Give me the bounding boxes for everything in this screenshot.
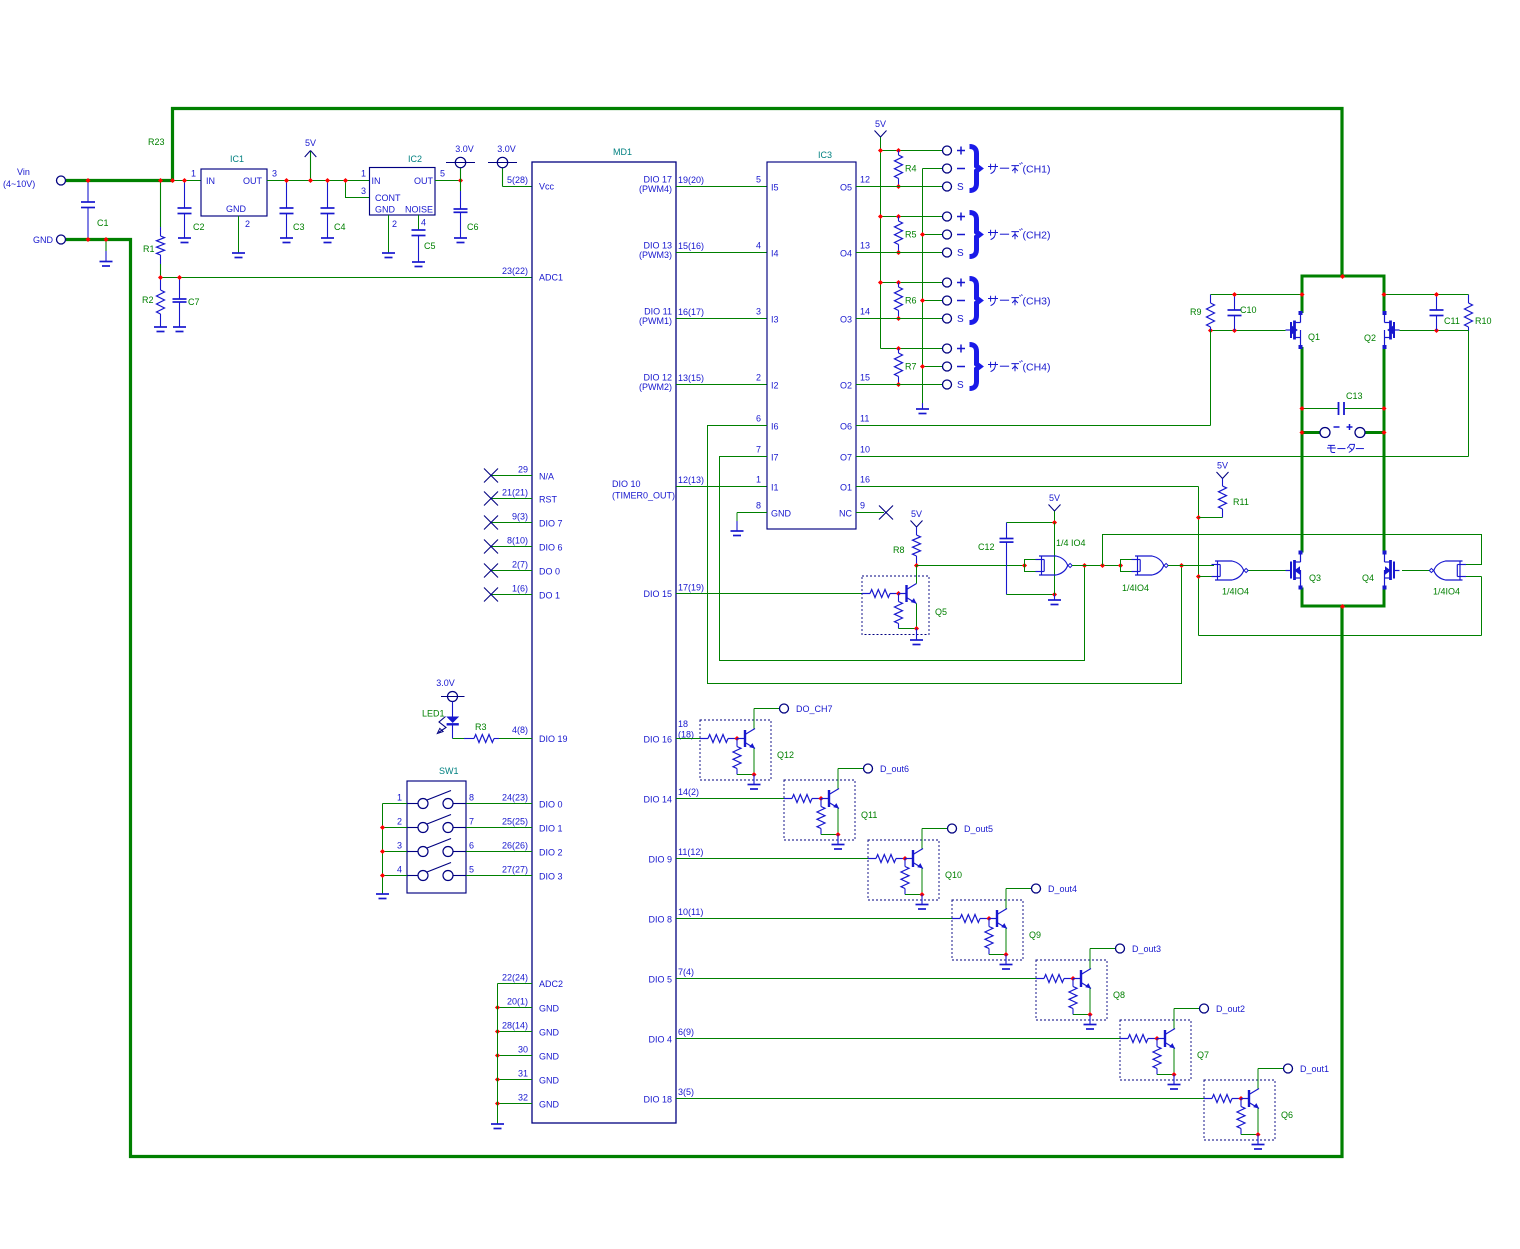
gate 1/4 IC4 second (inverter) bbox=[1118, 563, 1123, 568]
svg-text:(CH2): (CH2) bbox=[1023, 230, 1051, 242]
power 5V at R11 bbox=[1217, 472, 1223, 479]
svg-text:RST: RST bbox=[539, 495, 558, 505]
resistor R8 bbox=[916, 527, 918, 535]
wire gate2 output to gate3 bbox=[1168, 565, 1214, 567]
wire Q10 collector to D_out5 bbox=[922, 828, 948, 830]
label servo CH3 bbox=[988, 296, 998, 306]
wire GND thick net: GND terminal along left and bottom border up to H-bridge bbox=[66, 240, 1342, 1157]
ground Q5 emitter bbox=[916, 629, 918, 641]
svg-text:26(26): 26(26) bbox=[502, 841, 528, 851]
ground Q11 emitter bbox=[837, 835, 839, 845]
svg-text:12: 12 bbox=[860, 175, 870, 185]
svg-text:C12: C12 bbox=[978, 542, 995, 552]
wire servo CH1 plus bbox=[881, 150, 943, 152]
svg-text:DO 0: DO 0 bbox=[539, 567, 560, 577]
wire servo CH2 minus bbox=[923, 234, 943, 236]
transistor Q3 N-MOSFET bbox=[1300, 553, 1302, 563]
power 5V rail symbol at IC1 output bbox=[310, 151, 312, 181]
svg-text:2: 2 bbox=[397, 817, 402, 827]
capacitor C12 bbox=[1006, 523, 1008, 539]
svg-text:Vcc: Vcc bbox=[539, 182, 555, 192]
svg-text:DO 1: DO 1 bbox=[539, 591, 560, 601]
svg-text:C10: C10 bbox=[1240, 305, 1257, 315]
svg-text:N/A: N/A bbox=[539, 472, 554, 482]
wire R23 thick Vin net: Vin terminal to top border to H-bridge top bbox=[66, 109, 1342, 278]
svg-text:DIO 0: DIO 0 bbox=[539, 800, 563, 810]
svg-text:Q6: Q6 bbox=[1281, 1110, 1293, 1120]
svg-text:6: 6 bbox=[756, 414, 761, 424]
resistor R9 bbox=[1210, 295, 1212, 304]
svg-text:12(13): 12(13) bbox=[678, 475, 704, 485]
node servo CH1 terminals bbox=[943, 146, 952, 155]
svg-text:I2: I2 bbox=[771, 381, 779, 391]
svg-text:Vin: Vin bbox=[17, 167, 30, 177]
svg-text:14(2): 14(2) bbox=[678, 787, 699, 797]
wire Q6 collector to D_out1 bbox=[1258, 1068, 1284, 1070]
svg-text:(PWM4): (PWM4) bbox=[639, 184, 672, 194]
svg-text:S: S bbox=[957, 248, 964, 259]
wire SW1 to MD1 DIO 1 bbox=[453, 827, 466, 829]
label servo CH2 bbox=[988, 230, 998, 240]
node GND terminal bbox=[57, 235, 66, 244]
wire MD1 DIO 13 to IC3 bbox=[676, 252, 767, 254]
svg-text:DIO 5: DIO 5 bbox=[648, 975, 672, 985]
pin DIO 7 MD1 (no connect) bbox=[491, 522, 532, 524]
pin NC IC3 no connect bbox=[856, 512, 884, 514]
brace servo CH3 bbox=[970, 279, 980, 323]
svg-text:7: 7 bbox=[756, 445, 761, 455]
svg-text:NC: NC bbox=[839, 509, 852, 519]
switch SW1 pole 4 bbox=[383, 875, 408, 877]
wire H-bridge right vertical thick bbox=[1383, 275, 1386, 314]
wire R8 node to gate1 input bbox=[917, 565, 1025, 567]
resistor R6 bbox=[895, 287, 903, 311]
svg-text:R6: R6 bbox=[905, 296, 917, 306]
wire C12 bottom to ground bbox=[1007, 594, 1055, 596]
transistor Q1 P-MOSFET bbox=[1300, 313, 1302, 323]
svg-text:5: 5 bbox=[469, 865, 474, 875]
node Vin terminal bbox=[57, 176, 66, 185]
svg-text:1: 1 bbox=[756, 475, 761, 485]
svg-text:5V: 5V bbox=[1049, 493, 1060, 503]
wire H-bridge bottom bar thick bbox=[1302, 605, 1384, 608]
svg-text:O2: O2 bbox=[840, 381, 852, 391]
svg-text:20(1): 20(1) bbox=[507, 997, 528, 1007]
power 3.0V symbol at MD1 Vcc bbox=[502, 168, 504, 187]
svg-text:DIO 2: DIO 2 bbox=[539, 848, 563, 858]
wire IC2 CONT tie to IN bbox=[346, 181, 370, 198]
svg-text:1: 1 bbox=[191, 169, 196, 179]
pin DO 0 MD1 (no connect) bbox=[491, 570, 532, 572]
svg-text:O6: O6 bbox=[840, 422, 852, 432]
wire IC2 OUT 3.0V net bbox=[435, 180, 461, 182]
IC MD1 microcontroller box bbox=[532, 162, 676, 1123]
ground IC3 GND pin bbox=[737, 512, 767, 514]
svg-text:11: 11 bbox=[860, 414, 869, 424]
svg-text:DIO 8: DIO 8 bbox=[648, 915, 672, 925]
svg-text:14: 14 bbox=[860, 307, 870, 317]
wire gate2 output to IC3 I6 bbox=[708, 426, 1182, 684]
svg-text:C4: C4 bbox=[334, 222, 346, 232]
resistor R2 bbox=[160, 278, 162, 291]
svg-text:D_out6: D_out6 bbox=[880, 764, 909, 774]
wire servo minus rail bbox=[922, 169, 924, 404]
svg-text:C13: C13 bbox=[1346, 391, 1363, 401]
svg-text:24(23): 24(23) bbox=[502, 793, 528, 803]
svg-text:Q2: Q2 bbox=[1364, 333, 1376, 343]
svg-text:3: 3 bbox=[756, 307, 761, 317]
svg-text:C5: C5 bbox=[424, 241, 436, 251]
svg-text:Q4: Q4 bbox=[1362, 573, 1374, 583]
resistor R10 bbox=[1468, 295, 1470, 304]
svg-text:15(16): 15(16) bbox=[678, 241, 704, 251]
wire servo CH4 plus bbox=[881, 348, 943, 350]
svg-text:30: 30 bbox=[518, 1045, 528, 1055]
svg-text:DIO 14: DIO 14 bbox=[643, 795, 672, 805]
svg-text:OUT: OUT bbox=[414, 176, 434, 186]
svg-text:DIO 15: DIO 15 bbox=[643, 589, 672, 599]
svg-text:1/4 IO4: 1/4 IO4 bbox=[1056, 538, 1086, 548]
svg-text:(4~10V): (4~10V) bbox=[3, 179, 35, 189]
node terminal DO_CH7 bbox=[780, 704, 789, 713]
junction gate1 out bbox=[1082, 563, 1087, 568]
svg-text:I4: I4 bbox=[771, 249, 779, 259]
power 3.0V symbol at LED1 bbox=[448, 692, 458, 702]
svg-text:D_out2: D_out2 bbox=[1216, 1004, 1245, 1014]
svg-text:GND: GND bbox=[375, 205, 396, 215]
wire Q2 gate net bbox=[1400, 330, 1469, 332]
wire servo CH2 signal from IC3 bbox=[856, 252, 942, 254]
svg-text:23(22): 23(22) bbox=[502, 266, 528, 276]
svg-text:5V: 5V bbox=[1217, 461, 1228, 471]
svg-text:C3: C3 bbox=[293, 222, 305, 232]
pin GND 31 MD1 bbox=[498, 1079, 533, 1081]
svg-text:S: S bbox=[957, 314, 964, 325]
brace servo CH1 bbox=[970, 147, 980, 191]
svg-text:(CH3): (CH3) bbox=[1023, 296, 1051, 308]
svg-text:5: 5 bbox=[756, 175, 761, 185]
wire gate1 output to IC3 I7 bbox=[720, 457, 1085, 661]
svg-text:R9: R9 bbox=[1190, 307, 1202, 317]
svg-text:NOISE: NOISE bbox=[405, 205, 433, 215]
svg-text:8: 8 bbox=[756, 501, 761, 511]
svg-text:C6: C6 bbox=[467, 222, 479, 232]
node terminal D_out2 bbox=[1200, 1004, 1209, 1013]
wire Q9 collector to D_out4 bbox=[1006, 888, 1032, 890]
resistor R5 bbox=[895, 221, 903, 245]
svg-text:IN: IN bbox=[372, 176, 381, 186]
pin DIO 6 MD1 (no connect) bbox=[491, 546, 532, 548]
transistor Q12 with bias resistors in dashed box bbox=[700, 720, 771, 780]
wire MD1 DIO 8 to Q9 bbox=[676, 918, 952, 920]
svg-text:5(28): 5(28) bbox=[507, 175, 528, 185]
svg-text:C11: C11 bbox=[1444, 316, 1460, 326]
svg-text:9: 9 bbox=[860, 501, 865, 511]
ground at IC4 bbox=[1054, 595, 1056, 601]
wire MD1 DIO 16 to Q12 bbox=[676, 738, 700, 740]
svg-text:GND: GND bbox=[33, 235, 54, 245]
svg-text:31: 31 bbox=[518, 1069, 528, 1079]
wire MD1 DIO10 to IC3 I1 bbox=[676, 486, 767, 488]
op-amp IC2 regulator box bbox=[370, 168, 436, 216]
svg-text:15: 15 bbox=[860, 373, 870, 383]
svg-text:GND: GND bbox=[539, 1028, 560, 1038]
svg-text:C1: C1 bbox=[97, 218, 109, 228]
svg-text:(CH1): (CH1) bbox=[1023, 164, 1051, 176]
svg-text:2: 2 bbox=[392, 219, 397, 229]
svg-text:9(3): 9(3) bbox=[512, 512, 528, 522]
wire Q8 collector to D_out3 bbox=[1090, 948, 1116, 950]
svg-text:16(17): 16(17) bbox=[678, 307, 704, 317]
wire IC3 O1 to gates enable bbox=[856, 486, 1199, 488]
wire MD1 DIO 17 to IC3 bbox=[676, 186, 767, 188]
svg-text:Q11: Q11 bbox=[861, 810, 877, 820]
wire SW1 to MD1 DIO 0 bbox=[453, 803, 466, 805]
ground IC1 GND pin bbox=[238, 216, 240, 253]
svg-text:19(20): 19(20) bbox=[678, 175, 704, 185]
ground IC2 GND pin bbox=[388, 215, 390, 253]
svg-text:C7: C7 bbox=[188, 297, 200, 307]
svg-text:Q10: Q10 bbox=[945, 870, 962, 880]
svg-text:S: S bbox=[957, 182, 964, 193]
svg-text:C2: C2 bbox=[193, 222, 205, 232]
svg-text:GND: GND bbox=[539, 1052, 560, 1062]
svg-text:16: 16 bbox=[860, 475, 870, 485]
capacitor C5 on NOISE pin bbox=[418, 215, 420, 230]
svg-text:DIO 11: DIO 11 bbox=[644, 307, 672, 317]
svg-text:DIO 19: DIO 19 bbox=[539, 734, 568, 744]
capacitor C3 bbox=[286, 181, 288, 209]
transistor Q6 with bias resistors in dashed box bbox=[1204, 1080, 1275, 1140]
svg-text:DIO 9: DIO 9 bbox=[648, 855, 672, 865]
svg-text:R8: R8 bbox=[893, 545, 905, 555]
svg-text:R5: R5 bbox=[905, 230, 917, 240]
svg-text:6(9): 6(9) bbox=[678, 1027, 694, 1037]
svg-text:CONT: CONT bbox=[375, 193, 401, 203]
transistor Q8 with bias resistors in dashed box bbox=[1036, 960, 1107, 1020]
wire IC1 OUT to IC2 IN bbox=[267, 180, 370, 182]
switch SW1 pole 2 bbox=[383, 827, 408, 829]
svg-text:2: 2 bbox=[245, 219, 250, 229]
svg-text:3: 3 bbox=[361, 186, 366, 196]
ground MD1 GND rail bbox=[491, 1123, 504, 1125]
wire MD1 DIO 18 to Q6 bbox=[676, 1098, 1204, 1100]
svg-text:Q12: Q12 bbox=[777, 750, 794, 760]
junction bridge bottom bbox=[1340, 604, 1345, 609]
svg-text:3.0V: 3.0V bbox=[455, 144, 474, 154]
wire Q11 collector to D_out6 bbox=[838, 768, 864, 770]
wire servo CH1 signal from IC3 bbox=[856, 186, 942, 188]
svg-text:1/4IO4: 1/4IO4 bbox=[1433, 587, 1460, 597]
transistor Q7 with bias resistors in dashed box bbox=[1120, 1020, 1191, 1080]
svg-text:18: 18 bbox=[678, 719, 688, 729]
wire MD1 DIO 4 to Q7 bbox=[676, 1038, 1120, 1040]
pin GND 20(1) MD1 bbox=[498, 1007, 533, 1009]
svg-text:7: 7 bbox=[469, 817, 474, 827]
label servo CH1 bbox=[988, 164, 998, 174]
ground Q9 emitter bbox=[1005, 955, 1007, 965]
transistor Q11 with bias resistors in dashed box bbox=[784, 780, 855, 840]
svg-text:GND: GND bbox=[539, 1004, 560, 1014]
switch SW1 box bbox=[407, 781, 466, 893]
svg-text:O1: O1 bbox=[840, 483, 852, 493]
svg-text:5V: 5V bbox=[875, 119, 886, 129]
IC IC3 driver box bbox=[767, 162, 856, 529]
svg-text:Q7: Q7 bbox=[1197, 1050, 1209, 1060]
brace servo CH2 bbox=[970, 213, 980, 257]
wire 5V to C12 top bbox=[1007, 522, 1055, 524]
svg-text:1: 1 bbox=[361, 169, 366, 179]
svg-text:R4: R4 bbox=[905, 164, 917, 174]
svg-text:8(10): 8(10) bbox=[507, 536, 528, 546]
wire R11 to enable net bbox=[1199, 517, 1223, 519]
svg-text:R3: R3 bbox=[475, 722, 487, 732]
svg-text:11(12): 11(12) bbox=[678, 847, 703, 857]
wire servo CH4 signal from IC3 bbox=[856, 384, 942, 386]
svg-text:22(24): 22(24) bbox=[502, 973, 528, 983]
svg-text:D_out3: D_out3 bbox=[1132, 944, 1161, 954]
pin N/A MD1 (no connect) bbox=[491, 475, 532, 477]
junction R8/Q5 collector bbox=[914, 563, 919, 568]
node terminal D_out3 bbox=[1116, 944, 1125, 953]
pin RST MD1 (no connect) bbox=[491, 498, 532, 500]
svg-text:I6: I6 bbox=[771, 422, 779, 432]
capacitor C11 bbox=[1436, 295, 1438, 311]
svg-text:DIO 7: DIO 7 bbox=[539, 519, 563, 529]
node servo CH4 terminals bbox=[943, 344, 952, 353]
transistor Q4 N-MOSFET bbox=[1384, 553, 1386, 563]
svg-text:D_out5: D_out5 bbox=[964, 824, 993, 834]
svg-text:7(4): 7(4) bbox=[678, 967, 694, 977]
svg-text:DIO 1: DIO 1 bbox=[539, 824, 563, 834]
svg-text:IC2: IC2 bbox=[408, 154, 422, 164]
svg-text:ADC1: ADC1 bbox=[539, 273, 563, 283]
wire servo CH3 minus bbox=[923, 300, 943, 302]
svg-text:1/4IO4: 1/4IO4 bbox=[1122, 583, 1149, 593]
svg-text:I7: I7 bbox=[771, 453, 779, 463]
svg-text:O7: O7 bbox=[840, 453, 852, 463]
svg-text:S: S bbox=[957, 380, 964, 391]
resistor R1 bbox=[160, 181, 162, 228]
svg-text:2: 2 bbox=[756, 373, 761, 383]
LED1 emission arrow bbox=[439, 717, 447, 733]
svg-text:13: 13 bbox=[860, 241, 870, 251]
svg-text:5V: 5V bbox=[911, 509, 922, 519]
svg-text:I5: I5 bbox=[771, 183, 779, 193]
wire IC3 O7 to Q2 gate net bbox=[856, 456, 1469, 458]
svg-text:R23: R23 bbox=[148, 137, 165, 147]
svg-text:Q5: Q5 bbox=[935, 607, 947, 617]
wire servo CH3 plus bbox=[881, 282, 943, 284]
ground below C7 bbox=[173, 326, 186, 328]
svg-text:DIO 18: DIO 18 bbox=[643, 1095, 672, 1105]
svg-text:LED1: LED1 bbox=[422, 709, 445, 719]
transistor Q9 with bias resistors in dashed box bbox=[952, 900, 1023, 960]
gate 1/4 IC4 first (inverter) bbox=[1022, 563, 1027, 568]
svg-text:DIO 6: DIO 6 bbox=[539, 543, 563, 553]
svg-text:13(15): 13(15) bbox=[678, 373, 704, 383]
svg-text:DIO 16: DIO 16 bbox=[643, 735, 672, 745]
node terminal D_out5 bbox=[948, 824, 957, 833]
wire MD1 DIO 11 to IC3 bbox=[676, 318, 767, 320]
wire servo CH3 signal from IC3 bbox=[856, 318, 942, 320]
svg-text:SW1: SW1 bbox=[439, 766, 459, 776]
wire H-bridge top bar thick bbox=[1302, 275, 1384, 278]
node servo CH2 terminals bbox=[943, 212, 952, 221]
power 3.0V symbol at IC2 output bbox=[460, 168, 462, 181]
junction gate2 out bbox=[1179, 563, 1184, 568]
svg-text:29: 29 bbox=[518, 465, 528, 475]
wire gate3 output to Q3 gate bbox=[1247, 570, 1286, 572]
wire SW1 common rail bbox=[382, 804, 384, 895]
wire Vcc to MD1 bbox=[503, 186, 533, 188]
svg-text:4: 4 bbox=[421, 218, 426, 228]
wire servo CH4 minus bbox=[923, 366, 943, 368]
svg-text:17(19): 17(19) bbox=[678, 583, 704, 593]
svg-text:R1: R1 bbox=[143, 244, 155, 254]
node servo CH3 terminals bbox=[943, 278, 952, 287]
svg-text:I1: I1 bbox=[771, 483, 779, 493]
wire servo CH1 minus bbox=[923, 168, 943, 170]
wire IC4 power vertical bbox=[1054, 523, 1056, 595]
svg-text:GND: GND bbox=[539, 1076, 560, 1086]
svg-text:28(14): 28(14) bbox=[502, 1021, 528, 1031]
node motor terminals bbox=[1302, 431, 1320, 434]
svg-text:IN: IN bbox=[206, 176, 215, 186]
resistor R11 bbox=[1222, 479, 1224, 487]
switch SW1 pole 3 bbox=[383, 851, 408, 853]
svg-text:4(8): 4(8) bbox=[512, 725, 528, 735]
LED LED1 bbox=[446, 717, 459, 724]
svg-text:(PWM3): (PWM3) bbox=[639, 250, 672, 260]
ground below R2 bbox=[154, 326, 167, 328]
svg-text:5: 5 bbox=[440, 169, 445, 179]
svg-text:GND: GND bbox=[539, 1100, 560, 1110]
wire MD1 DIO 9 to Q10 bbox=[676, 858, 868, 860]
capacitor C7 bbox=[179, 278, 181, 300]
svg-text:Q9: Q9 bbox=[1029, 930, 1041, 940]
capacitor C10 bbox=[1234, 295, 1236, 311]
wire ADC2/GND rail bbox=[497, 984, 499, 1125]
wire ADC1 net to MD1 bbox=[161, 277, 533, 279]
svg-text:3.0V: 3.0V bbox=[497, 144, 516, 154]
op-amp IC1 regulator box bbox=[201, 169, 267, 216]
svg-text:3: 3 bbox=[272, 169, 277, 179]
wire C11/R10 top to bridge bbox=[1384, 294, 1469, 296]
svg-text:R10: R10 bbox=[1475, 316, 1492, 326]
power 5V at IC4 bbox=[1054, 511, 1056, 523]
svg-text:O4: O4 bbox=[840, 249, 852, 259]
ground Q7 emitter bbox=[1173, 1075, 1175, 1085]
svg-text:DIO 17: DIO 17 bbox=[643, 175, 672, 185]
wire gate1 output bbox=[1072, 565, 1121, 567]
svg-text:10: 10 bbox=[860, 445, 870, 455]
transistor Q5 with bias resistors in dashed box bbox=[862, 576, 929, 635]
svg-text:6: 6 bbox=[469, 841, 474, 851]
wire MD1 DIO15 to Q5 bbox=[676, 593, 862, 595]
power 5V at R8 bbox=[911, 521, 917, 528]
brace servo CH4 bbox=[970, 345, 980, 389]
ground servo minus rail bbox=[916, 408, 929, 410]
svg-text:D_out1: D_out1 bbox=[1300, 1064, 1329, 1074]
wire SW1 to MD1 DIO 3 bbox=[453, 875, 466, 877]
wire MD1 DIO 12 to IC3 bbox=[676, 384, 767, 386]
ground Q12 emitter bbox=[753, 775, 755, 785]
svg-text:5V: 5V bbox=[305, 138, 316, 148]
svg-text:DIO 3: DIO 3 bbox=[539, 872, 563, 882]
node terminal D_out4 bbox=[1032, 884, 1041, 893]
wire Q7 collector to D_out2 bbox=[1174, 1008, 1200, 1010]
